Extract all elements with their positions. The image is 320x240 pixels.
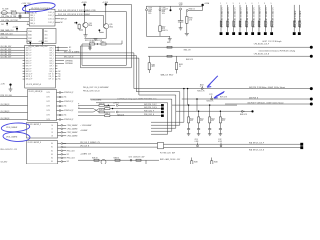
- svg-text:SRC_CLK5 33 0402 1%: SRC_CLK5 33 0402 1%: [253, 7, 255, 28]
- svg-text:CLOCK_GROUP_D: CLOCK_GROUP_D: [28, 142, 42, 144]
- svg-text:L12 600: L12 600: [89, 41, 95, 43]
- svg-text:PLL2_CLK_CPU_BCLK_N 3.3V 100: PLL2_CLK_CPU_BCLK_N 3.3V 100MHZ: [58, 14, 90, 16]
- transistor Q1: [83, 22, 88, 27]
- svg-text:10%: 10%: [162, 13, 166, 15]
- series resistor pack RP1: [158, 142, 164, 148]
- svg-text:R493 33: R493 33: [99, 110, 105, 112]
- svg-text:NC: NC: [67, 161, 70, 163]
- wire PCIe row4 with series resistor: [78, 115, 105, 117]
- U7 right pin row 4: [58, 135, 62, 137]
- svg-text:2: 2: [226, 3, 227, 5]
- svg-text:C178: C178: [179, 3, 183, 5]
- svg-text:OE3: OE3: [45, 41, 48, 43]
- svg-text:CPU_BCLK0_CLK_P: CPU_BCLK0_CLK_P: [254, 44, 269, 46]
- component ring bottom mid: [130, 159, 132, 161]
- svg-text:CPU_CLK_P 100MHZ 0.7V: CPU_CLK_P 100MHZ 0.7V: [80, 142, 101, 144]
- svg-text:49.9: 49.9: [211, 120, 214, 122]
- svg-text:R503: R503: [222, 118, 226, 120]
- svg-text:PEG +1.05V VCO - 1.2V: PEG +1.05V VCO - 1.2V: [1, 149, 17, 151]
- svg-text:SRC_CLK_A 66MHZ: SRC_CLK_A 66MHZ: [64, 50, 79, 53]
- svg-text:C192: C192: [218, 139, 222, 141]
- bottom rail wire: [159, 32, 161, 37]
- branch resistor R465 from BCLK_N: [148, 56, 150, 63]
- svg-text:NC: NC: [58, 71, 61, 73]
- logic block U2: [27, 29, 43, 44]
- svg-text:C169: C169: [162, 8, 166, 10]
- svg-text:N: N: [78, 107, 79, 109]
- svg-text:DMI_PCIE_P DMI 66ohm - 100kHZ: DMI_PCIE_P DMI 66ohm - 100kHZ 100/2ns To…: [249, 86, 286, 89]
- svg-text:CLK_IN2_3.3V: CLK_IN2_3.3V: [1, 51, 13, 53]
- branch resistor R pulldown from BCLK_N: [176, 56, 178, 62]
- blue annotation ellipse A (CPU clock): [1, 122, 30, 133]
- svg-text:SDA2: SDA2: [28, 37, 32, 40]
- blue arrow annotation 2: [214, 91, 225, 98]
- U1 pin 2 stub: [27, 24, 29, 26]
- wire row E (nested): [96, 102, 168, 104]
- svg-text:10%: 10%: [148, 13, 152, 15]
- short wire with ring (bottom right band): [241, 110, 243, 112]
- svg-text:OE0: OE0: [45, 31, 48, 33]
- U8 right pin row 1: [58, 143, 62, 145]
- wire filter output: [106, 43, 122, 45]
- power dot lower-left of crystal: [6, 23, 8, 25]
- vertical link wire D to rail: [196, 99, 198, 111]
- U1 pin 1 stub: [27, 12, 29, 14]
- svg-text:CPU1_100MHZ: CPU1_100MHZ: [67, 128, 78, 130]
- svg-text:R486 33: R486 33: [114, 157, 120, 159]
- wire row D (nested): [90, 98, 172, 100]
- svg-text:-CLOCK_GROUP_A: -CLOCK_GROUP_A: [26, 83, 42, 86]
- svg-text:SRC_CLK1 33 0402 1%: SRC_CLK1 33 0402 1%: [228, 7, 230, 28]
- wire CPU_BCLK_P long: [148, 46, 311, 48]
- svg-text:NC: NC: [67, 154, 70, 156]
- U8 right pin row 6: [58, 161, 62, 163]
- wire rail for RC strings lower: [176, 110, 245, 112]
- svg-text:+3.3V: +3.3V: [1, 84, 6, 86]
- svg-text:OUT0: OUT0: [46, 92, 50, 94]
- wire rail for RC strings upper: [172, 104, 237, 106]
- power dot for R base: [76, 22, 78, 24]
- svg-text:0.1UF: 0.1UF: [218, 141, 222, 143]
- svg-text:0805: 0805: [148, 11, 152, 13]
- svg-text:OUT2: OUT2: [46, 101, 50, 103]
- svg-text:DIF_6: DIF_6: [50, 63, 54, 65]
- svg-text:0603 1%: 0603 1%: [162, 30, 169, 32]
- svg-text:SRC_CLK6 33 0402 1%: SRC_CLK6 33 0402 1%: [260, 7, 262, 28]
- wire bend outermost down: [183, 89, 185, 123]
- svg-text:4: 4: [239, 3, 240, 5]
- wire CPU_BCLK_N long: [148, 55, 311, 57]
- U4 left pin rows with net labels: [23, 47, 25, 49]
- svg-text:SRC_CLK_B: SRC_CLK_B: [64, 57, 73, 59]
- svg-text:REF_3: REF_3: [30, 20, 35, 22]
- svg-text:P: P: [78, 104, 79, 106]
- U1 output wire PLL_CLK_P: [55, 11, 126, 13]
- svg-text:CPU0_100MHZ: CPU0_100MHZ: [67, 125, 78, 127]
- svg-text:CPU1_100MHZ: CPU1_100MHZ: [6, 136, 17, 138]
- capacitor C168 (bulk): [146, 9, 148, 11]
- svg-text:NC: NC: [58, 76, 61, 78]
- svg-text:R492 33: R492 33: [105, 106, 111, 108]
- svg-text:R474 4.7K: R474 4.7K: [207, 101, 214, 103]
- U8 right pin row 3: [58, 150, 62, 152]
- series resistor RL3: [136, 159, 141, 161]
- svg-text:R484: R484: [214, 161, 218, 163]
- svg-text:SRC5_P: SRC5_P: [26, 60, 32, 62]
- svg-text:10UF: 10UF: [162, 9, 166, 11]
- wire HDA pair N continuing: [164, 147, 302, 149]
- svg-text:PCIE_CLK2_P: PCIE_CLK2_P: [144, 111, 154, 113]
- svg-text:7: 7: [258, 3, 259, 5]
- svg-text:DIF_5: DIF_5: [50, 60, 54, 62]
- capacitor CS2: [198, 123, 200, 129]
- svg-text:NC: NC: [64, 115, 67, 117]
- svg-text:SRC1_P: SRC1_P: [26, 50, 32, 52]
- svg-text:NC: NC: [69, 47, 72, 49]
- buffer box U7: [27, 123, 58, 139]
- svg-text:REF_1: REF_1: [30, 15, 35, 17]
- wire bend C down: [138, 58, 140, 95]
- power dot near Q2 base: [99, 29, 101, 31]
- power flag for U2: [16, 28, 18, 30]
- resistor RB2 at bottom edge: [211, 161, 213, 164]
- series resistor RL1: [94, 159, 99, 161]
- svg-text:DIF_7: DIF_7: [50, 66, 54, 68]
- pullup resistor RT1: [293, 5, 295, 32]
- svg-text:R463: R463: [179, 64, 183, 66]
- svg-text:SRC10_P: SRC10_P: [26, 74, 33, 76]
- junction dot DMI_N: [196, 98, 198, 100]
- svg-text:B3: B3: [51, 154, 53, 156]
- svg-text:SRC9_P: SRC9_P: [26, 71, 32, 73]
- svg-text:PLT_RST_CLK# BUF: PLT_RST_CLK# BUF: [160, 153, 175, 155]
- U7 right pin row 1: [58, 124, 62, 126]
- svg-text:SRC_CLK4 33 0402 1%: SRC_CLK4 33 0402 1%: [247, 7, 249, 28]
- svg-text:0805: 0805: [162, 11, 166, 13]
- svg-text:CLK_IN1_3.3V: CLK_IN1_3.3V: [1, 49, 13, 51]
- U8 right pin row 5: [58, 157, 62, 159]
- svg-text:3904: 3904: [89, 25, 93, 27]
- pullup resistor RN4: [239, 5, 241, 32]
- svg-text:R485 33: R485 33: [92, 157, 98, 159]
- svg-text:PEG_A_CLKN CLK_B: PEG_A_CLKN CLK_B: [83, 89, 99, 92]
- pullup resistor RN3: [233, 5, 235, 32]
- svg-text:DIF_2: DIF_2: [50, 53, 54, 55]
- rail wire top: [146, 5, 202, 7]
- wire bottom row: [78, 159, 159, 161]
- U4 right pin NC wire: [57, 47, 67, 49]
- pullup resistor RN1: [220, 5, 222, 32]
- svg-text:O2: O2: [51, 132, 53, 134]
- logic block U3: [44, 29, 57, 44]
- termination resistor RS2: [198, 111, 200, 117]
- U7 right pin row 3: [58, 131, 62, 133]
- svg-text:B1: B1: [51, 147, 53, 149]
- svg-text:SRC_CLK2 33 0402 1%: SRC_CLK2 33 0402 1%: [234, 7, 236, 28]
- svg-text:DIF_9: DIF_9: [50, 71, 54, 73]
- ground of string 4: [219, 133, 223, 135]
- svg-text:CLK_IN3_3.3V: CLK_IN3_3.3V: [1, 54, 13, 56]
- svg-text:NC: NC: [58, 73, 61, 75]
- svg-text:C195 1.05V/0.5V 0.1UF: C195 1.05V/0.5V 0.1UF: [129, 157, 145, 159]
- clock generator U4 box: [25, 45, 56, 88]
- transistor Q3 bottom: [101, 160, 106, 165]
- U8 right pin row 2: [58, 146, 62, 148]
- svg-text:R45 33: R45 33: [11, 10, 17, 12]
- U1 output stub 3: [55, 18, 60, 20]
- series jumper ring on wire C: [201, 88, 203, 90]
- vertical link wire C to rail: [187, 89, 189, 106]
- wire PCIe row2 with series resistor: [78, 108, 93, 110]
- svg-text:DMI_PCIE_N: DMI_PCIE_N: [249, 97, 258, 99]
- wire loop left closing vertical inner: [81, 44, 83, 65]
- wire loop left closing vertical outer: [80, 46, 82, 68]
- svg-text:SRC_CLK3 33 0402 1%: SRC_CLK3 33 0402 1%: [241, 7, 243, 28]
- svg-text:R507: R507: [162, 26, 166, 28]
- capacitor CS4: [219, 123, 221, 129]
- svg-text:CPU2_100MHZ: CPU2_100MHZ: [67, 132, 78, 134]
- svg-text:B4: B4: [51, 158, 53, 160]
- ground of string 3: [208, 133, 212, 135]
- svg-text:Q35: Q35: [109, 24, 112, 26]
- svg-text:PCIECLK0_P: PCIECLK0_P: [64, 92, 73, 94]
- wire bend C east (nested): [139, 94, 176, 96]
- wire CPU_CLK_P long: [63, 143, 158, 145]
- wire PLLCLK_N to Q2 base: [102, 15, 104, 25]
- svg-text:1.5V HCSL_50 timing signals 1: 1.5V HCSL_50 timing signals 100MHZ PCIE …: [117, 97, 157, 100]
- svg-text:NC: NC: [61, 22, 64, 24]
- svg-text:CPU3_100MHZ: CPU3_100MHZ: [67, 135, 78, 137]
- pullup resistor RN9: [271, 5, 273, 32]
- svg-text:PCIE_CLK2_N: PCIE_CLK2_N: [144, 114, 154, 116]
- svg-text:CPU_CLK_N: CPU_CLK_N: [80, 146, 89, 148]
- U4 wire to bus bend B: [57, 55, 136, 57]
- wire PCIe row3 with series resistor: [78, 111, 93, 113]
- svg-text:OE1: OE1: [45, 35, 48, 37]
- svg-text:BUF_CLK0 33 0402: BUF_CLK0 33 0402: [295, 11, 297, 28]
- svg-text:NC: NC: [64, 97, 67, 99]
- svg-text:REF_4: REF_4: [30, 23, 35, 25]
- svg-text:CLKO_3: CLKO_3: [48, 22, 54, 24]
- pullup resistor RN2: [226, 5, 228, 32]
- svg-text:SRC12_P: SRC12_P: [26, 79, 33, 81]
- resistor R1 (series with crystal): [11, 12, 16, 14]
- svg-text:49.9: 49.9: [200, 120, 203, 122]
- svg-text:3: 3: [233, 3, 234, 5]
- shunt capacitor on pair at x197: [197, 145, 199, 147]
- svg-text:R462 4.7K: R462 4.7K: [186, 59, 193, 61]
- svg-text:C179: C179: [209, 94, 213, 96]
- black net flag row1: [161, 104, 164, 106]
- svg-text:R465: R465: [152, 64, 156, 66]
- svg-text:10UF: 10UF: [179, 5, 183, 7]
- blue annotation ellipse around U1 label: [22, 1, 56, 13]
- U4 right pin CKPWRGD: [57, 60, 64, 62]
- wire DMI_N long: [182, 98, 311, 100]
- power flag +V3.3A: [201, 4, 203, 6]
- ground below Q1: [85, 28, 87, 35]
- svg-text:PCIECLK2_P: PCIECLK2_P: [64, 101, 73, 103]
- ground of string 2: [197, 133, 201, 135]
- svg-text:OUT4: OUT4: [46, 110, 50, 112]
- buffer box U8: [27, 141, 58, 165]
- svg-text:49.9: 49.9: [190, 120, 193, 122]
- svg-text:SRC11_P: SRC11_P: [26, 76, 33, 78]
- svg-text:PEG_CLK2: PEG_CLK2: [67, 150, 75, 152]
- series resistor on BCLK_P: [167, 46, 172, 48]
- svg-text:CKPWRGD: CKPWRGD: [65, 63, 74, 65]
- svg-text:R480 4.7K: R480 4.7K: [240, 114, 247, 116]
- svg-text:NC: NC: [64, 106, 67, 108]
- svg-text:49.9: 49.9: [222, 120, 225, 122]
- svg-text:R482 + LAN1_CLK100 - 3.3V: R482 + LAN1_CLK100 - 3.3V: [160, 158, 180, 161]
- svg-text:DMI_PCIE_CLK_N: DMI_PCIE_CLK_N: [144, 107, 157, 109]
- U8 right pin row 4: [58, 153, 62, 155]
- resistor R332 top pin: [186, 10, 188, 12]
- pullup resistor RN6: [252, 5, 254, 32]
- svg-text:PCIECLK6_P: PCIECLK6_P: [64, 119, 73, 121]
- U4 right pin CKPWRGD: [57, 62, 64, 64]
- svg-text:GND: GND: [167, 42, 171, 44]
- svg-text:Q34: Q34: [89, 23, 92, 25]
- wire base R to Q1: [78, 29, 80, 30]
- resistor R507: [159, 26, 161, 32]
- U6 right pins with rings and labels: [57, 92, 60, 94]
- capacitor C181 above wire C: [201, 86, 203, 88]
- wire bend B east (nested): [136, 91, 179, 93]
- svg-text:SRC_CLK7 33 0402 1%: SRC_CLK7 33 0402 1%: [266, 7, 268, 28]
- wire HDA pair P continuing: [164, 143, 302, 145]
- U4 right pin NC wire: [57, 49, 67, 51]
- svg-text:6: 6: [252, 3, 253, 5]
- svg-text:8: 8: [264, 3, 265, 5]
- svg-text:CLK_IN0_3.3V: CLK_IN0_3.3V: [1, 46, 13, 48]
- svg-text:BUF_CLK1 33 0402: BUF_CLK1 33 0402: [300, 11, 302, 28]
- wire crystal to U1: [16, 12, 29, 14]
- svg-text:SRC_CLK8 33 0402 1%: SRC_CLK8 33 0402 1%: [272, 7, 274, 28]
- transistor Q2: [104, 24, 109, 29]
- series resistor FB1: [82, 43, 90, 45]
- svg-text:CLK_IN4_3.3V: CLK_IN4_3.3V: [1, 57, 13, 59]
- svg-text:49.9: 49.9: [162, 28, 165, 30]
- svg-text:OUT5: OUT5: [46, 115, 50, 117]
- svg-text:R461 4.7K: R461 4.7K: [184, 50, 191, 52]
- svg-text:C41: C41: [1, 24, 4, 26]
- svg-text:NC: NC: [58, 79, 61, 81]
- buffer box U6: [28, 90, 57, 121]
- wire bend A down: [133, 53, 135, 89]
- resistor R332 body: [186, 11, 188, 16]
- U7 right pin row 2: [58, 128, 62, 130]
- svg-text:O3: O3: [51, 135, 53, 137]
- ground below R332: [186, 23, 188, 33]
- svg-text:+ 3.3V-100MHZ: + 3.3V-100MHZ: [80, 125, 91, 127]
- U4 right pin stubs and labels: [55, 47, 57, 49]
- svg-text:0.1UF: 0.1UF: [195, 141, 199, 143]
- svg-text:5: 5: [245, 3, 246, 5]
- svg-text:R483: R483: [194, 161, 198, 163]
- svg-text:DIF_3: DIF_3: [50, 55, 54, 57]
- svg-text:4.7K: 4.7K: [189, 19, 192, 21]
- svg-text:33: 33: [179, 66, 181, 68]
- svg-text:R332 2.2: R332 2.2: [189, 8, 195, 10]
- series jumper ring on DMI_N: [211, 98, 213, 100]
- svg-text:HDA_BITCLK_CLK_N: HDA_BITCLK_CLK_N: [249, 148, 264, 151]
- capacitor C1 to ground: [19, 13, 21, 15]
- termination resistor RS3: [209, 105, 211, 117]
- svg-text:DIF_10: DIF_10: [49, 74, 54, 76]
- U4 wire to bus bend A: [57, 52, 133, 54]
- svg-text:PCIECLK4_P: PCIECLK4_P: [64, 110, 73, 112]
- svg-text:OUT6: OUT6: [46, 119, 50, 121]
- shunt capacitor on pair at x221: [220, 145, 222, 147]
- svg-text:+3.3V-100MHZ: +3.3V-100MHZ: [91, 100, 102, 102]
- svg-text:CLKO_1: CLKO_1: [48, 15, 54, 17]
- U1 output stub 4: [55, 21, 60, 23]
- svg-text:CLKO_2: CLKO_2: [48, 19, 54, 21]
- svg-text:PEG_CLK4: PEG_CLK4: [67, 158, 75, 160]
- series resistor RL2: [115, 159, 120, 161]
- svg-text:SRC3_P: SRC3_P: [26, 55, 32, 57]
- ground of rail: [169, 36, 171, 38]
- svg-text:DIF_12: DIF_12: [49, 79, 54, 81]
- svg-text:CPU0_100MHZ: CPU0_100MHZ: [6, 127, 17, 129]
- svg-text:SRC6_P: SRC6_P: [26, 63, 32, 65]
- ground of string 1: [187, 133, 191, 135]
- pullup resistor RN7: [258, 5, 260, 32]
- wire bend B down: [135, 56, 137, 92]
- svg-text:SDA1: SDA1: [28, 34, 32, 37]
- wire PLLCLK_P crossing to Q1 stage: [84, 11, 85, 12]
- svg-text:3904: 3904: [109, 26, 113, 28]
- svg-text:B0: B0: [51, 143, 53, 145]
- svg-text:DIF_1: DIF_1: [50, 50, 54, 52]
- pullup resistor RN5: [245, 5, 247, 32]
- capacitor C169: [159, 9, 161, 11]
- U4 wire to bus bend C: [57, 57, 138, 59]
- black net flag row3: [161, 111, 164, 113]
- wire E long (PCIE clk): [225, 103, 311, 105]
- svg-text:R495 4.7K: R495 4.7K: [117, 114, 124, 116]
- svg-text:CLK_EN#: CLK_EN#: [1, 162, 8, 164]
- svg-text:49.9: 49.9: [152, 66, 155, 68]
- ground mid-left: [9, 88, 13, 90]
- wire CPU_CLK_N long: [63, 146, 158, 148]
- svg-text:PLL2_CLK_CPU_BCLK_P 3.3V 100: PLL2_CLK_CPU_BCLK_P 3.3V 100MHZ 0.7NS: [58, 10, 96, 12]
- black net flag row2: [161, 107, 164, 109]
- U1 output wire PLL_CLK_N: [55, 14, 103, 16]
- pullup resistor RN8: [264, 5, 266, 32]
- wire C long (DMI clock P): [134, 88, 311, 90]
- svg-text:SRC8_P: SRC8_P: [26, 68, 32, 70]
- series resistor on BCLK_N: [167, 55, 172, 57]
- wire loop alpha (PLL_P route): [125, 12, 127, 66]
- junction end dot BCLK_P: [310, 46, 313, 49]
- svg-text:CKPWRGD: CKPWRGD: [65, 60, 74, 62]
- svg-text:+1.05V: +1.05V: [13, 26, 19, 28]
- svg-text:+-100MHZ: +-100MHZ: [80, 130, 87, 132]
- svg-text:DIF_8: DIF_8: [50, 68, 54, 70]
- svg-text:DIF_4: DIF_4: [50, 58, 54, 60]
- stub down from bottom row: [145, 160, 147, 164]
- svg-text:CLKO_0: CLKO_0: [48, 12, 54, 14]
- svg-text:PEG_A_CLKP CLK_B 66/100MHZ: PEG_A_CLKP CLK_B 66/100MHZ: [83, 86, 109, 89]
- black square terminal N: [300, 146, 303, 149]
- blue arrow annotation 1: [207, 76, 218, 87]
- junction crystal node: [25, 12, 26, 13]
- svg-text:CLOCK_GROUP_B: CLOCK_GROUP_B: [29, 91, 43, 93]
- svg-text:SRC2_P: SRC2_P: [26, 53, 32, 55]
